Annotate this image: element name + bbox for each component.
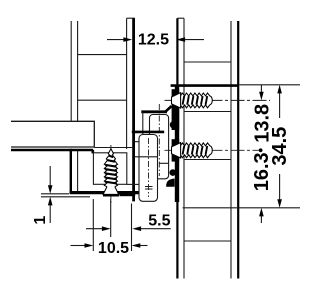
runner bottom flange end block	[120, 191, 136, 196]
runner body connector line	[127, 183, 143, 185]
dim 12.5 left arrow	[107, 37, 132, 42]
lower screw axis line	[165, 149, 259, 151]
upper screw axis line	[165, 99, 271, 101]
dim 1 upper ref line	[41, 193, 69, 195]
bracket blob	[170, 121, 178, 129]
dim 1 top arrow	[48, 166, 53, 194]
vertical screw	[103, 149, 119, 195]
dim 13.8 top arrow	[259, 85, 264, 101]
dim 10.5 left arrow	[71, 243, 94, 248]
dim 34.5 top arrow	[277, 85, 282, 94]
dim 10.5 right arrow	[132, 243, 148, 248]
bracket countersink lower	[172, 139, 180, 161]
bracket pin dot	[170, 169, 177, 176]
cabinet panel rung 1	[184, 61, 231, 63]
cabinet panel top stub	[177, 17, 184, 19]
cabinet panel rung 2	[184, 111, 231, 113]
dim 1 lower ref line	[41, 196, 90, 198]
dim 34.5 line	[279, 92, 281, 201]
dim 5.5 right arrow	[132, 226, 170, 231]
drawer profile top fold stub	[127, 17, 135, 19]
bracket countersink upper	[172, 89, 180, 130]
drawer side panel left face line	[70, 21, 72, 121]
ext line screw axis	[110, 199, 112, 237]
drawer side panel rung 2	[78, 99, 127, 101]
clip body A	[150, 115, 169, 179]
cabinet panel right thick face	[237, 21, 239, 279]
svg-text:12.5: 12.5	[138, 32, 169, 49]
cabinet panel rung 4	[184, 240, 231, 242]
bottom extension line right	[183, 207, 300, 209]
runner top flange	[11, 149, 93, 152]
dim separator dot	[259, 148, 263, 152]
bracket aux stub	[135, 141, 139, 143]
cabinet panel right inner line	[230, 21, 232, 279]
clip A center dashed line	[158, 104, 160, 176]
top extension line right	[239, 84, 300, 86]
bracket vertical plate	[175, 85, 179, 202]
bracket top edge	[171, 84, 238, 87]
clip B center dashed line	[148, 138, 150, 197]
bracket aux line 2	[159, 162, 169, 164]
ext line profile	[131, 204, 133, 252]
cabinet panel left inner line	[183, 18, 185, 278]
drawer bottom panel	[11, 121, 94, 147]
bracket arm outline	[142, 112, 144, 135]
bracket hook foot	[166, 179, 175, 187]
svg-text:1: 1	[32, 216, 49, 225]
ext line bar end	[92, 199, 94, 251]
clip B mark	[145, 187, 153, 190]
vertical screw head base	[103, 194, 119, 196]
runner left wall	[70, 149, 72, 194]
clip body B	[139, 135, 158, 202]
svg-text:34.5: 34.5	[269, 127, 291, 166]
bracket aux line 1	[135, 156, 158, 158]
drawer side panel rung 1	[78, 54, 127, 56]
bracket arm elbow	[166, 106, 172, 112]
drawer side panel inner face line	[77, 21, 79, 191]
drawer profile thick wall	[132, 18, 135, 201]
dim 12.5 right arrow	[176, 37, 204, 42]
cabinet panel left thick face	[176, 18, 178, 278]
dim 16.3 bottom arrow	[259, 208, 264, 223]
svg-text:10.5: 10.5	[98, 240, 129, 257]
dim 34.5 bottom arrow	[277, 199, 282, 208]
svg-text:5.5: 5.5	[148, 212, 170, 229]
drawer side panel right face line	[126, 18, 128, 149]
bracket arm	[141, 110, 167, 113]
dim 5.5 left arrow	[86, 226, 111, 231]
runner body	[93, 153, 126, 185]
lower screw	[172, 143, 213, 158]
dim 1 bottom arrow	[48, 197, 53, 223]
runner step stub	[92, 150, 95, 153]
drawer bottom gap line	[94, 147, 133, 149]
bracket cross bar	[132, 131, 164, 134]
vertical screw axis line	[110, 145, 112, 203]
runner bottom flange	[70, 191, 143, 194]
cabinet panel rung 3	[184, 159, 231, 161]
upper screw	[172, 93, 213, 108]
